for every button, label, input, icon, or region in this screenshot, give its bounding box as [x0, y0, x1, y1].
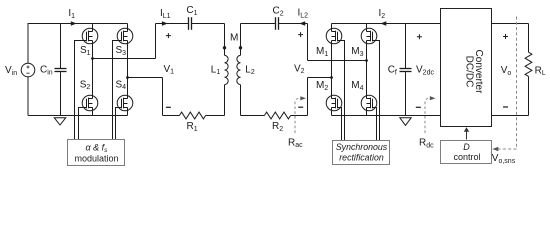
- wire tank top right: [241, 23, 276, 25]
- modulation block: [68, 140, 125, 166]
- synchronous rectification block: [333, 141, 390, 165]
- transistor S1: [82, 24, 98, 44]
- arrowhead Rdc: [430, 96, 436, 100]
- wire R2 to rectifier node D: [291, 78, 332, 116]
- wire gate M4: [373, 108, 377, 141]
- arrowhead Rac: [300, 96, 306, 100]
- label V2dc minus: [416, 106, 421, 108]
- wire gate S3: [113, 41, 122, 140]
- wire output top: [492, 24, 529, 53]
- label V2dc plus: [417, 34, 422, 39]
- arrow I1: [71, 21, 77, 26]
- inductor L2: [237, 55, 241, 84]
- svg-text:Converter: Converter: [473, 50, 484, 95]
- wire L1 bottom: [206, 85, 225, 116]
- wire Vin bottom lead: [27, 77, 29, 116]
- wire gate S4: [116, 108, 122, 140]
- wire Vin top lead: [27, 24, 30, 64]
- wire gate M1: [338, 41, 345, 141]
- resistor R2: [264, 112, 290, 119]
- wire bridge right leg: [127, 41, 129, 116]
- dot L1: [223, 46, 226, 49]
- wire gate S1: [75, 41, 87, 140]
- junction node C: [365, 59, 368, 62]
- wire C2 to rectifier node C: [279, 24, 367, 61]
- wire C1 to L1: [192, 24, 225, 56]
- wire node A to tank top: [93, 24, 156, 59]
- converter block: [441, 9, 492, 127]
- label V2 plus: [298, 32, 303, 37]
- wire L2 top: [240, 24, 242, 56]
- transistor S4: [117, 95, 133, 111]
- label V1 plus: [166, 33, 171, 38]
- transistor S2: [82, 95, 98, 111]
- dashed arrow Rdc: [425, 98, 430, 133]
- wire gate M3: [373, 41, 380, 141]
- D control block: [441, 141, 492, 164]
- source Vin: [21, 63, 35, 77]
- wire bridge left leg: [92, 41, 94, 116]
- wire gate M2: [338, 108, 342, 141]
- wire gate S2: [79, 108, 87, 140]
- capacitor C1: [189, 17, 192, 30]
- capacitor Cf: [400, 24, 412, 116]
- svg-text:modulation: modulation: [74, 154, 118, 164]
- wire output bottom: [492, 76, 529, 115]
- arrow I2: [380, 21, 386, 26]
- ground: [400, 118, 411, 126]
- label Vo minus: [503, 106, 508, 108]
- dashed sense line Vo,sns: [496, 17, 517, 150]
- svg-text:rectification: rectification: [339, 153, 384, 163]
- svg-text:D: D: [463, 142, 470, 152]
- svg-text:Synchronous: Synchronous: [336, 142, 388, 152]
- wire rectifier left leg: [331, 41, 333, 116]
- wire top rail input: [28, 23, 128, 25]
- svg-text:M: M: [230, 33, 238, 44]
- resistor R1: [179, 112, 205, 119]
- arrow IL2: [299, 21, 305, 26]
- wire L2 bottom: [241, 85, 265, 116]
- ground: [54, 118, 66, 125]
- arrow IL1: [162, 21, 168, 26]
- wire rectifier right leg: [366, 41, 368, 116]
- arrowhead Vo,sns: [492, 147, 498, 151]
- transistor M3: [361, 24, 377, 44]
- capacitor Cin: [55, 24, 67, 116]
- junction node B: [126, 76, 129, 79]
- dot L2: [239, 46, 242, 49]
- wire node B to tank bottom: [128, 78, 163, 116]
- dashed arrow Rac: [295, 98, 300, 133]
- transistor M4: [361, 95, 377, 111]
- wire rectifier bottom rail: [332, 115, 441, 117]
- label V2 minus: [298, 106, 303, 108]
- arrow D control to converter: [466, 131, 468, 139]
- junction node A: [91, 57, 94, 60]
- capacitor C2: [276, 17, 279, 30]
- wire R1 to node B: [163, 115, 180, 117]
- transistor M2: [326, 95, 342, 111]
- transistor S3: [117, 24, 133, 44]
- wire tank top left: [156, 23, 189, 25]
- wire rectifier top rail: [332, 23, 441, 25]
- junction node D: [330, 76, 333, 79]
- label Vo plus: [503, 34, 508, 39]
- inductor L1: [225, 55, 229, 84]
- wire bottom rail input: [28, 115, 128, 117]
- svg-text:control: control: [453, 152, 480, 162]
- svg-text:DC/DC: DC/DC: [464, 56, 475, 88]
- resistor RL: [525, 52, 532, 76]
- transistor M1: [326, 24, 342, 44]
- label V1 minus: [166, 106, 171, 108]
